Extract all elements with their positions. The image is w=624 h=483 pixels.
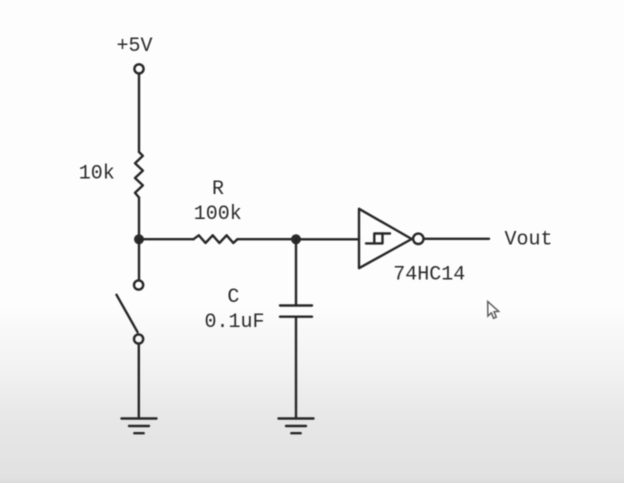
- wire +5V terminal to R1: [138, 75, 140, 152]
- svg-text:74HC14: 74HC14: [393, 264, 465, 287]
- svg-text:0.1uF: 0.1uF: [204, 311, 264, 334]
- node B junction dot: [291, 234, 301, 244]
- label C: [227, 286, 239, 309]
- +5V terminal circle: [134, 64, 143, 73]
- label 100k: [194, 203, 242, 226]
- switch S1 lower contact: [134, 334, 143, 343]
- wire R1 to node A: [138, 198, 140, 240]
- node A junction dot: [134, 234, 144, 244]
- label R: [212, 178, 224, 201]
- svg-text:Vout: Vout: [504, 229, 552, 252]
- svg-text:R: R: [212, 178, 224, 201]
- hysteresis symbol inside U1: [366, 234, 390, 244]
- +5V label: [116, 35, 152, 58]
- resistor R1 10k: [135, 152, 143, 198]
- wire node A to R: [139, 238, 194, 240]
- wire R to node B: [238, 238, 297, 240]
- wire switch to ground: [138, 345, 140, 419]
- inverter output bubble: [413, 234, 423, 244]
- mouse cursor: [488, 302, 499, 319]
- svg-text:10k: 10k: [79, 163, 115, 186]
- label 10k: [79, 163, 115, 186]
- label 74HC14: [393, 264, 465, 287]
- wire node B to capacitor C: [295, 239, 297, 305]
- inverter U1 triangle: [359, 209, 412, 268]
- svg-text:+5V: +5V: [116, 35, 152, 58]
- ground symbol left: [122, 419, 157, 434]
- wire node B to inverter input: [296, 238, 359, 240]
- label 0.1uF: [204, 311, 264, 334]
- ground symbol right: [279, 419, 314, 434]
- capacitor C plates: [280, 306, 312, 317]
- switch S1 upper contact: [134, 280, 143, 289]
- svg-text:100k: 100k: [194, 203, 242, 226]
- svg-text:C: C: [227, 286, 239, 309]
- resistor R 100k: [194, 235, 238, 243]
- wire output to Vout: [425, 238, 489, 240]
- wire capacitor to ground: [295, 317, 297, 419]
- switch S1 lever: [117, 295, 138, 332]
- label Vout: [504, 229, 552, 252]
- wire node A to switch: [138, 239, 140, 279]
